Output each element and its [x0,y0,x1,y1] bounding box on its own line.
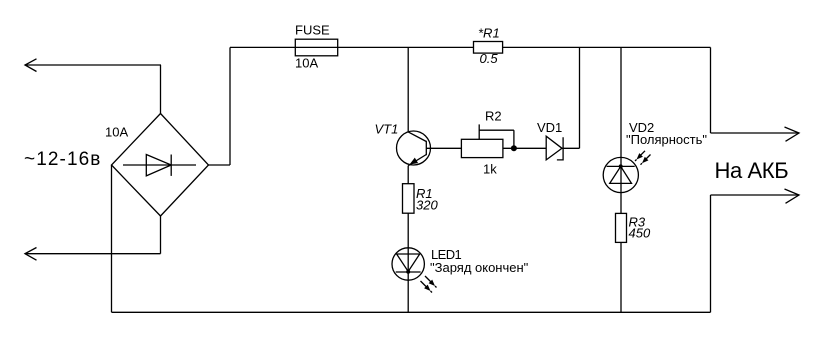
svg-text:~12-16в: ~12-16в [24,149,101,170]
arrowhead output upper (pointing right) [785,127,800,141]
arrowhead AC lower (pointing left) [25,248,37,261]
resistor R3 body [616,213,627,242]
svg-text:10A: 10A [295,56,318,71]
svg-text:VD1: VD1 [537,120,562,135]
wire through LED1 down to bottom rail [407,248,409,312]
transistor VT1 collector line [408,132,426,142]
wire output lower line [711,194,800,196]
wire VT1 base lead [426,147,461,149]
svg-text:*R1: *R1 [478,26,500,41]
wire top rail to VD2 [620,47,622,157]
bridge inner diode wire [123,164,196,166]
resistor R1 body [403,184,415,214]
wire VD1 cathode to riser [562,147,580,149]
wire AC input upper line [25,64,161,66]
wire R2 wiper stub [478,124,480,139]
wire output upper line [711,132,800,134]
LED1 cathode bar [396,271,421,273]
LED1 emission arrow 1 [425,276,437,288]
bridge rectifier outline (diamond) [112,114,209,217]
svg-text:10A: 10A [105,125,128,140]
wire AC input lower line [25,253,161,255]
resistor R2 body [461,139,503,157]
wire bottom rail [112,311,711,313]
wire bridge bottom corner down to AC lower line [160,216,162,254]
wire output lower to bottom rail [710,195,712,312]
transistor VT1 circle [397,131,431,165]
arrowhead output lower (pointing right) [785,189,800,203]
VD2 emission arrow 2 [641,155,651,165]
svg-text:FUSE: FUSE [295,23,330,38]
svg-text:450: 450 [629,226,651,241]
wire R2 tap horizontal [479,129,514,131]
transistor VT1 emitter arrowhead [410,158,419,165]
arrowhead AC upper (pointing left) [25,59,37,72]
wire R3 to bottom rail [620,242,622,312]
wire bridge left corner down to bottom rail [111,165,113,312]
LED VD2 circle [603,157,638,192]
bridge inner diode triangle [146,155,171,176]
wire top rail to output upper [710,47,712,133]
svg-text:320: 320 [416,198,438,213]
wire R1 to LED1 [407,213,409,248]
VD2 emission arrow 1 [635,151,645,161]
wire R2 output to VD1 [503,147,546,149]
zener diode VD1 triangle [546,136,562,160]
svg-text:VT1: VT1 [375,122,399,137]
wire R2 tap vertical [513,130,515,148]
wire top rail (right of *R1) [503,46,711,48]
svg-text:R2: R2 [485,109,502,124]
fuse FUSE body [295,39,337,56]
transistor VT1 emitter line [408,155,426,166]
svg-text:На АКБ: На АКБ [715,158,789,183]
wire bridge right corner to riser [209,164,231,166]
VD2 triangle [610,166,632,183]
LED1 emission arrow 2 [421,281,433,293]
VD2 cathode bar [607,165,635,167]
resistor *R1 body [474,42,503,54]
svg-text:"Полярность": "Полярность" [626,132,707,147]
wire VT1 emitter to R1 [407,166,409,184]
wire top rail (left of *R1) [230,46,474,48]
svg-text:"Заряд окончен": "Заряд окончен" [430,260,529,275]
wire riser to top rail [229,47,231,165]
junction dot R2 tap [511,145,517,151]
svg-text:1k: 1k [483,162,497,177]
bridge inner diode cathode bar [170,155,172,176]
LED1 triangle [397,254,420,272]
svg-text:0.5: 0.5 [480,51,499,66]
wire through VD2 [620,158,622,214]
VD2 junction dot [619,164,623,168]
wire riser VD1 to top rail [579,47,581,148]
wire top rail to VT1 collector [407,47,409,131]
zener diode VD1 cathode bar with hook [557,137,563,160]
LED1 circle [392,248,424,280]
wire from AC upper line down to bridge top corner [160,65,162,114]
transistor VT1 base bar [425,141,427,155]
LED1 junction dot [406,270,410,274]
